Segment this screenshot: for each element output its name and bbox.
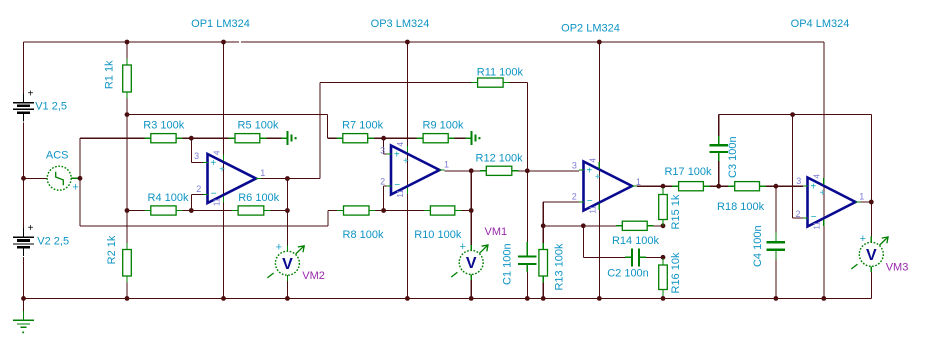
junction OP3 noninv node xyxy=(381,136,386,141)
junction R4 left node xyxy=(125,208,130,213)
resistor R17 xyxy=(664,166,712,191)
junction bottom rail C1 xyxy=(525,296,530,301)
wire ACS row to R8 riser xyxy=(80,225,328,227)
resistor R11 xyxy=(471,67,523,88)
svg-text:11: 11 xyxy=(813,221,822,230)
wire riser into R8 xyxy=(327,211,329,226)
ground xyxy=(13,298,34,333)
svg-text:+: + xyxy=(72,182,78,194)
label C2 xyxy=(607,268,649,280)
label OP2 pin 3 xyxy=(572,161,577,171)
svg-text:3: 3 xyxy=(572,161,577,171)
capacitor C2 xyxy=(625,248,646,266)
svg-text:V: V xyxy=(466,255,477,272)
op-amp OP4 xyxy=(803,174,861,230)
svg-text:+: + xyxy=(28,223,34,234)
label OP4 pin 2 xyxy=(795,209,800,219)
junction R16 top node xyxy=(661,255,666,260)
junction bottom rail C4 xyxy=(774,296,779,301)
voltmeter VM1 xyxy=(451,241,488,280)
label OP1 pin 2 xyxy=(196,184,201,194)
wire C3 to node xyxy=(718,161,720,186)
wire out to VM3 xyxy=(870,202,872,237)
svg-text:+: + xyxy=(586,166,592,177)
junction OP2 V+ at top rail xyxy=(597,40,602,45)
wire C2 branch down xyxy=(582,226,584,257)
wire R15 top stub xyxy=(662,186,664,188)
op-amp OP3 xyxy=(387,142,445,198)
wire R3 to node xyxy=(183,137,192,139)
wire OP3 output xyxy=(445,170,472,172)
svg-text:R18 100k: R18 100k xyxy=(717,201,765,213)
wire to OP3 pin3 xyxy=(384,153,387,155)
wire node to R9 xyxy=(384,137,417,139)
svg-text:OP1 LM324: OP1 LM324 xyxy=(191,18,250,30)
svg-text:OP2 LM324: OP2 LM324 xyxy=(561,23,620,35)
svg-text:R9 100k: R9 100k xyxy=(423,119,464,131)
svg-text:+: + xyxy=(210,158,216,169)
wire top feedback row xyxy=(719,114,872,116)
junction OP4 out node xyxy=(869,200,874,205)
wire R16 stub xyxy=(662,256,664,259)
label C1 xyxy=(501,243,513,285)
svg-text:R2 1k: R2 1k xyxy=(106,235,118,264)
resistor R13 xyxy=(539,243,566,291)
wire R13 to bottom rail xyxy=(542,283,544,299)
svg-text:2: 2 xyxy=(196,184,201,194)
label OP3 pin 3 xyxy=(380,145,385,155)
wire to VM2 xyxy=(286,211,288,246)
junction C4 top node xyxy=(774,184,779,189)
svg-text:R8 100k: R8 100k xyxy=(343,229,384,241)
wire node to R6 xyxy=(191,210,231,212)
wire into R8 xyxy=(328,210,337,212)
junction OP3 V+ at top rail xyxy=(405,40,410,45)
battery V2 xyxy=(13,223,34,256)
junction R10 right node xyxy=(469,208,474,213)
wire node to OP2 pin3 xyxy=(527,170,579,172)
wire ACS node up to R3 row xyxy=(79,138,81,178)
svg-text:R11 100k: R11 100k xyxy=(477,67,524,79)
svg-text:R4 100k: R4 100k xyxy=(148,192,189,204)
wire R16 to bottom rail xyxy=(662,297,664,299)
svg-text:C4 100n: C4 100n xyxy=(752,225,764,267)
svg-text:V: V xyxy=(282,256,293,273)
resistor R14 xyxy=(612,221,660,247)
label C4 xyxy=(752,225,764,267)
svg-text:1: 1 xyxy=(636,177,641,187)
label OP4 pin 1 xyxy=(859,192,864,202)
wire V1- down xyxy=(23,123,25,229)
capacitor stub after R9 xyxy=(465,131,480,145)
wire R4 to node xyxy=(183,210,192,212)
resistor R18 xyxy=(717,182,766,214)
svg-text:R16 10k: R16 10k xyxy=(670,252,682,293)
wire R7 to node xyxy=(374,137,383,139)
label OP3 pin 1 xyxy=(444,160,449,170)
wire R6 to VM2 node xyxy=(270,210,287,212)
wire R18 to node xyxy=(766,185,776,187)
svg-text:R15 1k: R15 1k xyxy=(670,194,682,229)
svg-text:11: 11 xyxy=(589,205,598,214)
svg-text:R3 100k: R3 100k xyxy=(143,119,184,131)
label OP2 xyxy=(561,23,620,35)
junction bottom rail / ground xyxy=(21,296,26,301)
junction OP1 V- at bottom rail xyxy=(221,296,226,301)
junction OP4 V- at bottom rail xyxy=(821,296,826,301)
svg-text:C2 100n: C2 100n xyxy=(607,268,649,280)
junction R6 right node xyxy=(285,208,290,213)
resistor R8 xyxy=(337,206,384,241)
wire R1 node row xyxy=(127,114,328,116)
svg-text:R14 100k: R14 100k xyxy=(612,235,660,247)
wire C2 to R16 node xyxy=(646,256,663,258)
label V2 value xyxy=(37,236,69,248)
svg-text:R13 100k: R13 100k xyxy=(554,243,566,291)
junction R15 bottom node xyxy=(661,223,666,228)
junction bottom rail R13 xyxy=(541,296,546,301)
wire OP4 output xyxy=(861,201,872,203)
label V1 value xyxy=(35,101,67,113)
wire V2- to bottom rail xyxy=(23,257,25,298)
wire VM1 to bottom rail xyxy=(470,280,472,298)
wire OP3 supply line xyxy=(406,42,408,298)
wire R11 riser xyxy=(526,83,528,171)
junction OP2 noninv node xyxy=(525,168,530,173)
label OP1 xyxy=(191,18,250,30)
svg-text:+: + xyxy=(28,88,34,99)
resistor R2 xyxy=(106,235,131,282)
label ACS xyxy=(46,149,69,161)
voltmeter VM3 xyxy=(851,233,888,272)
svg-text:OP3 LM324: OP3 LM324 xyxy=(371,18,430,30)
svg-text:VM1: VM1 xyxy=(484,226,507,238)
wire OP1 supply line xyxy=(223,42,225,298)
wire ground bottom rail xyxy=(24,297,872,299)
svg-text:4: 4 xyxy=(396,142,405,147)
junction R1 bottom node xyxy=(125,112,130,117)
svg-text:3: 3 xyxy=(380,145,385,155)
junction OP3 V- at bottom rail xyxy=(405,296,410,301)
wire VM2 riser xyxy=(286,179,288,211)
junction OP2 inv node xyxy=(541,223,546,228)
capacitor C3 xyxy=(709,136,728,161)
wire OP2 supply line xyxy=(598,42,600,298)
resistor R3 xyxy=(143,119,184,143)
wire out to R12 xyxy=(471,170,480,172)
wire OP3 out down xyxy=(470,171,472,211)
svg-text:2: 2 xyxy=(572,192,577,202)
svg-text:V2 2,5: V2 2,5 xyxy=(37,236,69,248)
svg-text:+: + xyxy=(810,182,816,193)
wire OP4 supply line xyxy=(823,42,825,298)
wire R1 to node xyxy=(126,99,128,115)
svg-text:2: 2 xyxy=(380,177,385,187)
svg-text:R17 100k: R17 100k xyxy=(664,166,712,178)
svg-text:+: + xyxy=(394,150,400,161)
label OP4 pin 3 xyxy=(796,176,801,186)
svg-text:R7 100k: R7 100k xyxy=(342,120,383,132)
wire into R7 xyxy=(328,137,337,139)
wire node to R2 xyxy=(126,211,128,244)
svg-text:R12 100k: R12 100k xyxy=(476,152,524,164)
wire C2 row xyxy=(583,256,625,258)
wire noninv node down xyxy=(190,138,192,162)
resistor R16 xyxy=(659,252,682,296)
svg-text:VM3: VM3 xyxy=(886,262,909,274)
svg-text:3: 3 xyxy=(796,176,801,186)
junction bottom rail VM1 xyxy=(469,296,474,301)
wire R9 to C stub xyxy=(455,137,466,139)
wire OP1 output xyxy=(261,178,320,180)
current source ACS xyxy=(24,166,81,193)
wire OP4 inv riser xyxy=(792,115,794,218)
resistor R12 xyxy=(476,152,524,175)
junction ACS output node xyxy=(78,176,83,181)
op-amp OP2 xyxy=(579,158,637,214)
wire OP1 out riser to R11 xyxy=(319,83,321,179)
wire riser to R7 xyxy=(327,115,329,139)
wire R12 to node xyxy=(518,170,527,172)
wire top rail to R1 xyxy=(126,42,128,59)
wire VM2 to bottom rail xyxy=(286,281,288,299)
svg-text:C1 100n: C1 100n xyxy=(501,243,513,285)
wire R10 to node xyxy=(461,210,471,212)
voltmeter VM2 xyxy=(267,242,304,281)
wire inv row xyxy=(543,225,616,227)
label OP4 xyxy=(791,18,850,30)
svg-text:ACS: ACS xyxy=(46,149,69,161)
junction OP1 noninv node xyxy=(189,136,194,141)
resistor R7 xyxy=(336,120,383,143)
svg-text:3: 3 xyxy=(194,151,199,161)
svg-text:4: 4 xyxy=(213,150,222,155)
svg-text:+: + xyxy=(219,165,225,176)
svg-text:+: + xyxy=(819,188,825,199)
wire V+ top rail (left span) xyxy=(24,41,239,43)
svg-text:4: 4 xyxy=(813,174,822,179)
wire node to OP4 pin3 xyxy=(776,185,803,187)
wire OP3 inv riser xyxy=(383,186,385,211)
svg-text:R5 100k: R5 100k xyxy=(238,119,279,131)
svg-text:V1 2,5: V1 2,5 xyxy=(35,101,67,113)
wire to OP3 pin2 xyxy=(384,185,387,187)
wire R11 row xyxy=(320,82,471,84)
label VM2 xyxy=(302,270,325,282)
label OP1 pin 1 xyxy=(260,168,265,178)
label OP2 pin 2 xyxy=(572,192,577,202)
label OP2 pin 1 xyxy=(636,177,641,187)
wire R11 to riser xyxy=(510,82,528,84)
resistor R5 xyxy=(229,119,279,143)
wire R4 left xyxy=(127,210,144,212)
svg-text:+: + xyxy=(403,156,409,167)
junction OP1 V+ at top rail xyxy=(221,40,226,45)
capacitor stub after R5 xyxy=(282,131,297,145)
wire node to R13 xyxy=(542,226,544,243)
junction node ACS left xyxy=(21,176,26,181)
wire node to R18 xyxy=(719,185,729,187)
wire inv node up xyxy=(190,195,192,211)
wire R8 to node xyxy=(376,210,384,212)
junction bottom rail R16 xyxy=(661,296,666,301)
wire V+ top rail (right span) xyxy=(241,41,824,43)
wire R5 to C stub xyxy=(266,137,281,139)
svg-text:R10 100k: R10 100k xyxy=(414,229,462,241)
junction OP4 inv tap xyxy=(790,112,795,117)
wire OP2 output xyxy=(637,185,663,187)
wire R17 to node xyxy=(710,185,719,187)
resistor R15 xyxy=(659,188,682,229)
label OP3 xyxy=(371,18,430,30)
svg-text:R1 1k: R1 1k xyxy=(104,60,116,89)
svg-text:R6 100k: R6 100k xyxy=(238,192,279,204)
capacitor C4 xyxy=(767,233,786,260)
wire C3 riser top xyxy=(718,115,720,136)
capacitor C1 xyxy=(518,242,537,272)
wire to OP1 pin3 xyxy=(191,162,203,164)
resistor R4 xyxy=(144,192,189,215)
label VM1 xyxy=(484,226,507,238)
wire pin2 riser xyxy=(542,202,544,226)
wire R2 to bottom rail xyxy=(126,283,128,299)
wire R1 node down xyxy=(126,115,128,211)
op-amp OP1 xyxy=(203,150,261,206)
svg-text:+: + xyxy=(860,233,866,245)
svg-text:V: V xyxy=(866,247,877,264)
battery V1 xyxy=(13,88,34,121)
wire OP2 pin2 xyxy=(543,201,579,203)
junction OP1 out / VM2 xyxy=(285,176,290,181)
wire ACS node to R3 xyxy=(80,137,144,139)
resistor R9 xyxy=(417,119,464,143)
junction C3 bottom node xyxy=(716,184,721,189)
svg-text:2: 2 xyxy=(795,209,800,219)
svg-text:11: 11 xyxy=(213,197,222,206)
junction OP3 inv node xyxy=(381,208,386,213)
svg-text:1: 1 xyxy=(444,160,449,170)
resistor R1 xyxy=(104,59,132,99)
label OP1 pin 3 xyxy=(194,151,199,161)
svg-text:VM2: VM2 xyxy=(302,270,325,282)
junction OP2 V- at bottom rail xyxy=(597,296,602,301)
junction top rail R1 xyxy=(125,40,130,45)
junction OP2 out node xyxy=(661,184,666,189)
wire to OP1 pin2 xyxy=(191,194,203,196)
junction C2 branch xyxy=(581,223,586,228)
wire node to C4 xyxy=(775,186,777,233)
junction bottom rail VM2 xyxy=(285,296,290,301)
svg-text:1: 1 xyxy=(859,192,864,202)
junction bottom rail R2 xyxy=(125,296,130,301)
wire top rail to V1+ xyxy=(23,42,25,94)
junction OP1 inv node xyxy=(189,208,194,213)
svg-text:4: 4 xyxy=(589,158,598,163)
wire ACS node down xyxy=(79,178,81,226)
svg-text:OP4 LM324: OP4 LM324 xyxy=(791,18,850,30)
wire C4 to bottom rail xyxy=(775,260,777,299)
label VM3 xyxy=(886,262,909,274)
wire R14 to node xyxy=(654,225,663,227)
wire out to R17 xyxy=(663,185,672,187)
resistor R6 xyxy=(232,192,280,215)
junction OP3 out node xyxy=(469,168,474,173)
wire node to R5 xyxy=(191,137,228,139)
resistor R10 xyxy=(414,206,462,241)
wire OP3 noninv riser xyxy=(383,138,385,154)
wire node to C1 xyxy=(526,171,528,242)
svg-text:11: 11 xyxy=(396,189,405,198)
wire VM3 to bottom rail xyxy=(870,272,872,299)
svg-text:+: + xyxy=(276,242,282,254)
wire to OP4 pin2 xyxy=(793,217,803,219)
wire C1 to bottom rail xyxy=(526,272,528,298)
wire node to R10 xyxy=(384,210,424,212)
svg-text:+: + xyxy=(595,172,601,183)
svg-text:C3 100n: C3 100n xyxy=(727,136,739,178)
svg-text:+: + xyxy=(459,241,465,253)
wire feedback riser xyxy=(870,115,872,202)
wire to VM1 xyxy=(470,211,472,245)
label OP3 pin 2 xyxy=(380,177,385,187)
label C3 xyxy=(727,136,739,178)
svg-text:1: 1 xyxy=(260,168,265,178)
